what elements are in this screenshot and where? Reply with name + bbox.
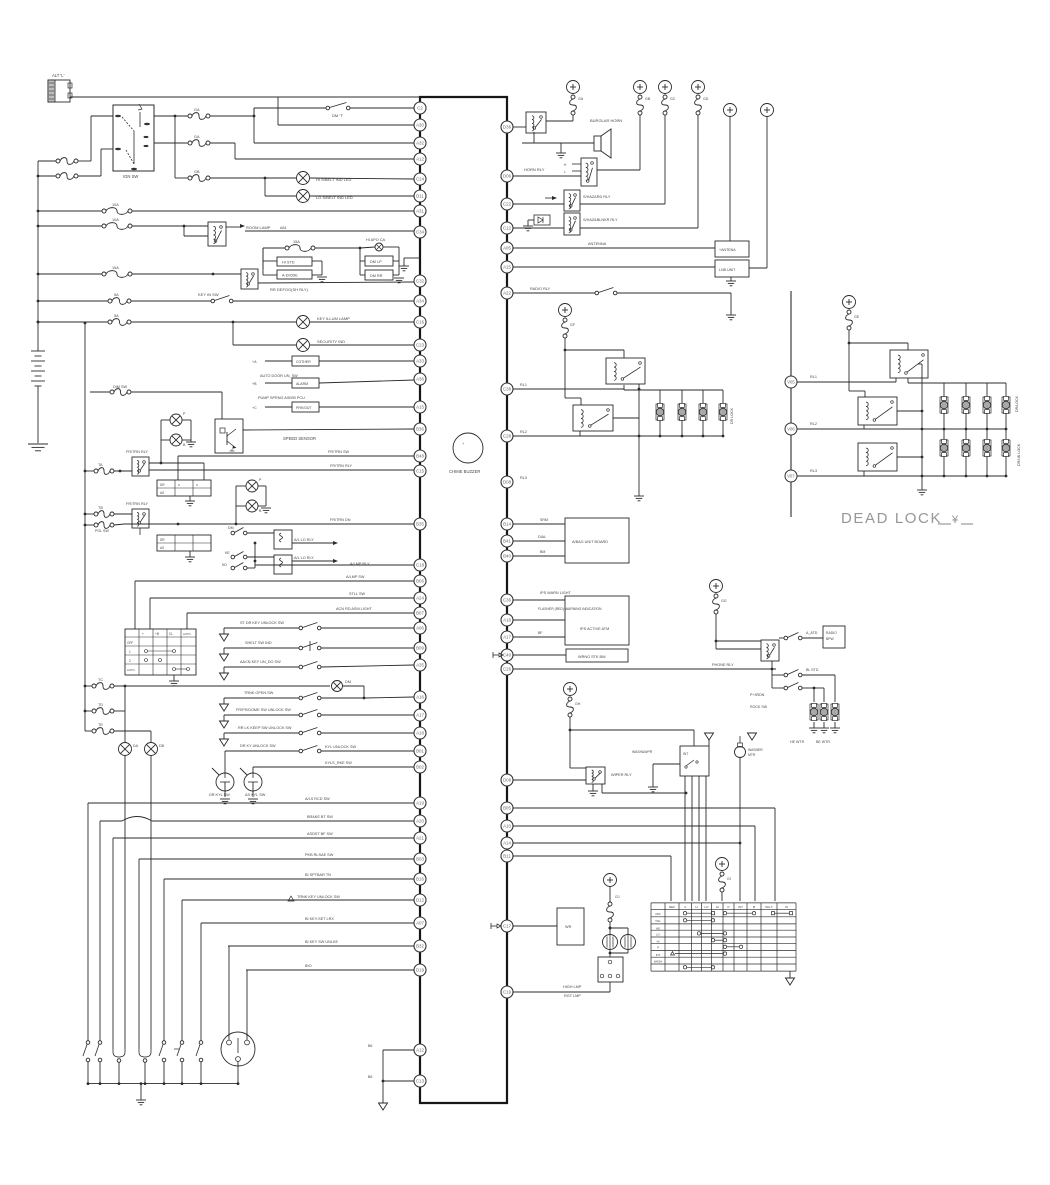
- svg-text:S/HAZARD RLY: S/HAZARD RLY: [583, 195, 611, 199]
- svg-text:C28: C28: [503, 434, 512, 439]
- washer motor drop: [739, 758, 741, 902]
- pin C24: [414, 173, 426, 185]
- resistor box HI STD: [277, 257, 312, 266]
- wire wiper feed: [570, 729, 694, 731]
- battery: [31, 350, 45, 352]
- switch KYL unlock: [299, 749, 303, 753]
- lamp HI S/BELT IND: [297, 172, 310, 185]
- svg-text:1: 1: [129, 650, 131, 654]
- resistor box DM LP: [365, 256, 393, 266]
- svg-text:KD: KD: [222, 563, 227, 567]
- A/C switch grid: [125, 629, 196, 675]
- svg-text:KE: KE: [225, 551, 230, 555]
- wire branch to LO seatbelt lamp: [264, 178, 266, 196]
- svg-text:TA: TA: [98, 463, 103, 467]
- wire IGN vertical x175: [174, 116, 176, 178]
- wires defog boxes: [359, 248, 361, 275]
- svg-text:+: +: [142, 632, 144, 636]
- heater actuator 2: [820, 704, 828, 720]
- wire ALT to ECU top: [70, 96, 420, 98]
- svg-text:o: o: [178, 483, 180, 487]
- pin RL1: [785, 376, 797, 388]
- key cylinder DR: [216, 773, 234, 791]
- svg-text:D36: D36: [503, 125, 512, 130]
- pin A34: [414, 295, 426, 307]
- pin C36: [501, 594, 513, 606]
- pin A32: [414, 137, 426, 149]
- lamp column A: [119, 743, 132, 756]
- svg-text:OFF: OFF: [127, 641, 133, 645]
- heater actuator 1: [810, 704, 818, 720]
- pin B35: [414, 518, 426, 530]
- pin D36: [501, 121, 513, 133]
- wire wiper relay output: [601, 784, 603, 793]
- pin A24: [414, 592, 426, 604]
- wire to B36: [243, 429, 414, 430]
- switch heater B: [772, 674, 784, 676]
- svg-text:WASH: WASH: [654, 960, 662, 964]
- svg-text:FR/PS/DOME SW UNLOCK SW: FR/PS/DOME SW UNLOCK SW: [236, 708, 291, 712]
- relay PWR DN RLY: [132, 509, 149, 528]
- relay dead lock 1: [890, 350, 928, 378]
- wire C19 row: [513, 991, 610, 993]
- svg-text:A10: A10: [503, 824, 511, 829]
- wire C18 row: [255, 564, 414, 566]
- svg-text:C13: C13: [416, 1079, 425, 1084]
- pin A19: [414, 797, 426, 809]
- svg-text:GI: GI: [727, 877, 731, 881]
- wire cascade D19: [246, 969, 414, 971]
- resistor box DM RR: [365, 270, 393, 280]
- svg-text:V06: V06: [787, 427, 795, 432]
- relay dead lock 2: [858, 397, 897, 425]
- wire D09 left: [513, 779, 586, 781]
- svg-text:FR/TRN RLY: FR/TRN RLY: [126, 502, 149, 506]
- svg-text:A14: A14: [503, 841, 511, 846]
- svg-text:A15: A15: [503, 265, 511, 270]
- actuators row 2: [943, 429, 945, 440]
- relay contact out: [613, 417, 639, 419]
- wire STLL SW row: [150, 597, 414, 599]
- fuse FF: [108, 320, 112, 324]
- wire C12 row: [513, 227, 564, 229]
- pin B32: [414, 940, 426, 952]
- svg-text:ASDST BF SW: ASDST BF SW: [307, 832, 333, 836]
- pin A17: [414, 709, 426, 721]
- svg-text:B02: B02: [416, 765, 424, 770]
- box airbag unit: [565, 518, 629, 563]
- svg-text:A15: A15: [416, 405, 424, 410]
- ground table: [789, 971, 791, 978]
- pin A20: [414, 815, 426, 827]
- pin B11: [501, 850, 513, 862]
- svg-text:B32: B32: [416, 944, 424, 949]
- svg-text:CHIME BUZZER: CHIME BUZZER: [449, 469, 480, 474]
- pin C12: [501, 222, 513, 234]
- combination switch table: [650, 903, 652, 971]
- battery feed 5: [724, 104, 737, 117]
- svg-text:HD: HD: [656, 926, 660, 930]
- svg-text:LO: LO: [704, 905, 709, 909]
- fuse F1: [188, 114, 192, 118]
- pin C26: [501, 663, 513, 675]
- wire C16 row: [38, 321, 108, 323]
- wire C22 row: [513, 203, 564, 205]
- svg-text:WR: WR: [565, 925, 572, 929]
- switch TRNK OPEN: [223, 698, 225, 704]
- svg-text:+B: +B: [155, 632, 159, 636]
- wire C17 row: [513, 925, 557, 927]
- ground switch bank: [140, 1084, 142, 1100]
- svg-text:10A: 10A: [112, 218, 119, 222]
- resistor box A-DIODE: [277, 270, 312, 279]
- pin D11: [414, 190, 426, 202]
- wire A14 row: [513, 842, 740, 844]
- pin A14: [501, 837, 513, 849]
- switch bank tick: [174, 1048, 179, 1050]
- svg-text:A07: A07: [416, 921, 424, 926]
- fuse FJ: [92, 684, 96, 688]
- wire cascade A19: [88, 802, 414, 804]
- center vertical dead lock: [921, 364, 923, 490]
- speaker BURGLAR HORN: [533, 132, 535, 143]
- pin A33: [414, 355, 426, 367]
- door switch grid 2: [157, 535, 211, 551]
- svg-text:PGL SW: PGL SW: [95, 529, 109, 533]
- svg-text:B11: B11: [503, 854, 511, 859]
- svg-text:D12: D12: [416, 898, 425, 903]
- svg-text:A05: A05: [503, 246, 511, 251]
- relay FR-TRN RLY: [132, 457, 149, 476]
- svg-text:+A: +A: [252, 360, 257, 364]
- pin C23: [414, 339, 426, 351]
- pin A15: [501, 261, 513, 273]
- wire B35 row: [124, 523, 414, 525]
- wire B40 row: [513, 555, 565, 557]
- door switch grid 1: [157, 480, 211, 496]
- wire IGN out fuse row 2: [154, 142, 188, 144]
- svg-text:MTR: MTR: [748, 753, 756, 757]
- svg-text:H: H: [695, 905, 697, 909]
- svg-text:C36: C36: [503, 598, 512, 603]
- switch RR LK KEEP: [223, 733, 225, 739]
- svg-text:A24: A24: [416, 596, 424, 601]
- svg-text:B6: B6: [368, 1075, 372, 1079]
- pin C34: [414, 226, 426, 238]
- svg-text:D08: D08: [503, 480, 512, 485]
- relay RR DEFOG: [241, 269, 258, 289]
- wire cascade B16: [164, 878, 414, 880]
- pin RL3: [785, 470, 797, 482]
- svg-text:D09: D09: [503, 778, 512, 783]
- fuse FA: [102, 209, 106, 213]
- vertical drops to switch bank: [87, 803, 89, 1041]
- fuse FI2: [94, 523, 98, 527]
- wires key cyls: [212, 768, 219, 775]
- svg-text:BPW: BPW: [826, 637, 835, 641]
- svg-text:A35: A35: [416, 663, 424, 668]
- pin A07: [414, 917, 426, 929]
- headlamp left: [603, 935, 618, 950]
- svg-text:C2: C2: [417, 106, 423, 111]
- ground wiper relay: [592, 784, 594, 791]
- svg-text:HI: HI: [657, 939, 660, 943]
- svg-text:AS: AS: [160, 546, 164, 550]
- wire KYL UNLOCK row: [225, 750, 299, 752]
- svg-text:INT: INT: [656, 953, 661, 957]
- wire door lock feed: [565, 349, 624, 351]
- box IPS active: [565, 596, 629, 645]
- sensor box 1: [265, 360, 292, 362]
- svg-text:SECURITY IND: SECURITY IND: [317, 339, 345, 344]
- wire cascade B32: [228, 945, 414, 947]
- svg-text:DR: DR: [160, 538, 165, 542]
- headlamp connector box: [598, 957, 623, 982]
- pin C19: [501, 986, 513, 998]
- wire cascade D12: [182, 899, 414, 901]
- svg-text:DIAL: DIAL: [538, 535, 546, 539]
- svg-text:2: 2: [129, 659, 131, 663]
- pin B09: [414, 642, 426, 654]
- wire A34 row: [38, 300, 108, 302]
- svg-text:+B: +B: [252, 382, 257, 386]
- svg-text:DM RR: DM RR: [370, 274, 383, 278]
- svg-text:P: P: [657, 946, 659, 950]
- svg-text:DM: DM: [228, 526, 234, 530]
- wire B11 row: [513, 855, 671, 857]
- svg-text:SPEED SENSOR: SPEED SENSOR: [283, 436, 316, 441]
- wire A18 row: [513, 619, 565, 621]
- svg-text:C22: C22: [503, 202, 512, 207]
- lamp SECURITY IND: [297, 339, 310, 352]
- pin A12: [414, 1044, 426, 1056]
- svg-text:A18: A18: [416, 731, 424, 736]
- pin B05: [501, 802, 513, 814]
- wire to C34: [245, 230, 414, 232]
- svg-text:DB: DB: [159, 744, 165, 748]
- wire corner x254: [253, 108, 255, 143]
- svg-text:B07: B07: [416, 611, 424, 616]
- battery door lock: [559, 304, 572, 317]
- switch bank switches: [86, 1041, 90, 1045]
- svg-text:DIM SW: DIM SW: [113, 385, 128, 389]
- svg-text:FLASHER (RED) WARNING INDICATI: FLASHER (RED) WARNING INDICATION: [538, 607, 602, 611]
- svg-text:FR/TRN RLY: FR/TRN RLY: [330, 464, 353, 468]
- pin C13: [414, 1075, 426, 1087]
- fuse FC: [102, 272, 106, 276]
- fuse FK: [92, 709, 96, 713]
- ground battery: [28, 443, 48, 445]
- svg-text:TC: TC: [98, 678, 103, 682]
- wire dome fuse row: [85, 685, 92, 687]
- wire dead lock feed: [849, 342, 908, 344]
- svg-text:B09: B09: [416, 646, 424, 651]
- ignition switch IGN SW: [113, 105, 154, 171]
- pin A05: [501, 242, 513, 254]
- svg-text:RL2: RL2: [810, 422, 817, 426]
- fuse FE: [108, 299, 112, 303]
- wire A10 row: [513, 825, 755, 827]
- svg-text:C34: C34: [416, 230, 425, 235]
- battery feed 3: [659, 81, 672, 94]
- svg-text:10A: 10A: [112, 203, 119, 207]
- svg-text:+ANTENA: +ANTENA: [719, 248, 736, 252]
- svg-text:C16: C16: [416, 320, 425, 325]
- svg-text:C18: C18: [416, 563, 425, 568]
- battery dead lock: [843, 296, 856, 309]
- svg-text:C32: C32: [416, 279, 425, 284]
- svg-text:INT: INT: [683, 752, 688, 756]
- svg-text:A_ATD: A_ATD: [806, 631, 818, 635]
- svg-text:WA-T: WA-T: [765, 905, 773, 909]
- ground wiper switch: [653, 763, 680, 765]
- svg-text:A-DIODE: A-DIODE: [282, 274, 298, 278]
- box ANTENNA: [715, 241, 749, 257]
- svg-text:P+3RDN: P+3RDN: [750, 693, 765, 697]
- svg-text:GH: GH: [575, 702, 581, 706]
- svg-text:TRNK KEY UNLOCK SW: TRNK KEY UNLOCK SW: [297, 895, 340, 899]
- wire B48 row: [177, 456, 179, 463]
- svg-text:KEY ILLUM LAMP: KEY ILLUM LAMP: [317, 316, 350, 321]
- wire IGN feed 1: [38, 160, 56, 162]
- svg-text:B6: B6: [368, 1044, 372, 1048]
- battery table: [716, 858, 729, 871]
- wire dome fuse row 2: [85, 710, 92, 712]
- svg-text:PUMP SPRNG ASM'B PCU: PUMP SPRNG ASM'B PCU: [258, 396, 305, 400]
- pin D09: [501, 774, 513, 786]
- svg-text:PKB RLSAE SW: PKB RLSAE SW: [305, 853, 334, 857]
- svg-text:DEAD LOCK: DEAD LOCK: [841, 510, 942, 527]
- pin D06: [501, 170, 513, 182]
- pin A30: [414, 119, 426, 131]
- washer motor: [739, 736, 741, 743]
- svg-text:B16: B16: [416, 877, 424, 882]
- wire C15 row: [149, 469, 414, 471]
- svg-text:C38: C38: [503, 387, 512, 392]
- pin C32: [414, 275, 426, 287]
- wire IGN out fuse row 1: [154, 115, 188, 117]
- svg-text:C23: C23: [416, 343, 425, 348]
- svg-text:B48: B48: [416, 454, 424, 459]
- switch radio: [595, 291, 599, 295]
- svg-text:A30: A30: [416, 123, 424, 128]
- svg-text:A32: A32: [416, 141, 424, 146]
- svg-text:WASH&WPR: WASH&WPR: [632, 750, 653, 754]
- svg-text:KYL UNLOCK SW: KYL UNLOCK SW: [325, 745, 357, 749]
- svg-text:HORN RLY: HORN RLY: [524, 167, 545, 172]
- battery B+ bus: [37, 161, 39, 351]
- svg-text:GB: GB: [645, 97, 651, 101]
- svg-text:A20: A20: [416, 819, 424, 824]
- svg-text:WASHER: WASHER: [748, 748, 763, 752]
- wire C26 row: [513, 668, 776, 670]
- svg-text:COTHER: COTHER: [296, 360, 311, 364]
- svg-text:DR LOCK: DR LOCK: [730, 407, 734, 424]
- battery feed 4: [692, 81, 705, 94]
- svg-text:A/L LO RLY: A/L LO RLY: [294, 538, 314, 542]
- svg-text:5A: 5A: [114, 293, 119, 297]
- svg-text:A61: A61: [280, 226, 287, 230]
- wire C40 row: [513, 654, 566, 656]
- svg-text:A/BAG UNIT BOARD: A/BAG UNIT BOARD: [572, 540, 608, 544]
- battery wiper: [564, 683, 577, 696]
- svg-text:LO S/BELT IND LED: LO S/BELT IND LED: [316, 195, 353, 200]
- wire fuse row relay2: [85, 513, 94, 515]
- box warning stick: [566, 649, 628, 662]
- svg-text:BI KEY SW UNLKE: BI KEY SW UNLKE: [305, 940, 339, 944]
- chime buzzer: [453, 433, 483, 463]
- svg-text:WRNG STK BW: WRNG STK BW: [578, 655, 606, 659]
- wire KYLS row: [253, 766, 414, 768]
- wire dome fuse row 3: [85, 730, 92, 732]
- svg-text:IPS WARN LIGHT: IPS WARN LIGHT: [540, 591, 572, 595]
- pin C15: [414, 465, 426, 477]
- wire RL2 row: [797, 428, 1006, 430]
- diode assembly: [528, 219, 534, 221]
- switch ACN KEY UNDO: [223, 667, 225, 673]
- svg-text:LNB UNIT: LNB UNIT: [719, 268, 736, 272]
- lamp warn 3: [246, 480, 258, 492]
- svg-text:A18: A18: [503, 618, 511, 623]
- svg-text:RL1: RL1: [520, 383, 527, 387]
- svg-text:A/LMP SW: A/LMP SW: [346, 575, 365, 579]
- svg-text:B40: B40: [503, 554, 511, 559]
- svg-text:B41: B41: [503, 539, 511, 544]
- relay WIPER RLY: [586, 767, 605, 784]
- pin A15: [414, 401, 426, 413]
- pin D19: [414, 964, 426, 976]
- battery phone: [710, 580, 723, 593]
- lamp warn 4: [246, 500, 258, 512]
- key cylinder AS: [244, 773, 262, 791]
- alternator connector ALT-L: [48, 80, 70, 102]
- svg-text:B05: B05: [503, 806, 511, 811]
- svg-text:V05: V05: [787, 380, 795, 385]
- switch FR door unlock: [223, 715, 225, 721]
- relay D36: [513, 126, 526, 128]
- wire RL1 row: [797, 381, 896, 383]
- pin A35: [414, 659, 426, 671]
- svg-text:FR/TRN RLY: FR/TRN RLY: [126, 450, 149, 454]
- svg-text:BI SPTBAR TN: BI SPTBAR TN: [305, 873, 331, 877]
- svg-text:TE: TE: [98, 723, 103, 727]
- svg-text:IGN SW: IGN SW: [123, 174, 138, 179]
- relay contacts out: [897, 410, 922, 412]
- wire B05 row: [513, 807, 775, 809]
- svg-text:C40: C40: [503, 653, 512, 658]
- wire A12 bottom: [383, 1049, 414, 1051]
- svg-text:AUTO: AUTO: [127, 668, 136, 672]
- svg-text:W: W: [785, 905, 788, 909]
- wire C32 row: [38, 273, 102, 275]
- svg-text:DR/UN LOCK: DR/UN LOCK: [1017, 443, 1021, 466]
- svg-text:A12: A12: [416, 157, 424, 162]
- svg-text:A17: A17: [416, 713, 424, 718]
- svg-text:SRM: SRM: [540, 518, 548, 522]
- pin A22: [501, 287, 513, 299]
- svg-text:ALARM: ALARM: [296, 382, 308, 386]
- switch bank cup pair 2: [139, 1049, 151, 1057]
- table feed wires: [670, 856, 672, 901]
- grid contacts: [145, 650, 148, 653]
- wire to IGN SW: [78, 160, 91, 162]
- relay ROOM LAMP: [208, 222, 226, 246]
- svg-text:RL2: RL2: [520, 430, 527, 434]
- wire bottom ground drop: [382, 1050, 384, 1103]
- svg-text:C17: C17: [503, 924, 512, 929]
- svg-text:HIGH LMP: HIGH LMP: [563, 985, 582, 989]
- battery feed 6: [761, 104, 774, 117]
